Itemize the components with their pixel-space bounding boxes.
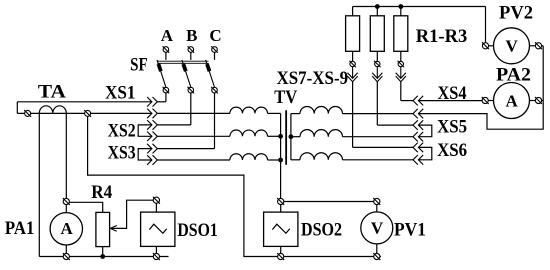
wire XS7 to XS6 row (352, 82, 354, 148)
wire SF pole B to connector row (190, 93, 192, 125)
wire top rail to resistors (353, 6, 486, 8)
wire XS8 to XS5 row (376, 82, 378, 125)
svg-text:XS1: XS1 (105, 83, 136, 104)
connector contact XS1 pin 1 (147, 97, 157, 107)
wire bottom rail left (39, 256, 168, 258)
svg-text:PA2: PA2 (496, 64, 531, 85)
connector contact XS3 pin 2 (147, 155, 157, 165)
jumper bracket on XS2 (138, 125, 152, 136)
terminal on TA line left (24, 110, 31, 117)
terminal phase C input (211, 46, 218, 53)
current transformer TA secondary winding (39, 106, 66, 114)
connector contact XS3 pin 1 (147, 144, 157, 154)
jumper bracket on XS3 (138, 149, 152, 160)
terminal SF pole A output (163, 87, 170, 94)
svg-text:XS7-XS-9: XS7-XS-9 (277, 68, 349, 89)
terminal SF pole C output (211, 87, 218, 94)
rheostat R4 wiper arrow (110, 200, 153, 228)
wire XS4 to PA2 (418, 100, 482, 102)
wire XS1 to TV primary winding 1 (157, 112, 230, 114)
svg-text:C: C (209, 26, 221, 45)
wire XS9 to XS4 row (400, 82, 402, 101)
svg-text:XS6: XS6 (437, 140, 467, 161)
terminal phase A input (163, 46, 170, 53)
svg-text:A: A (60, 219, 73, 238)
junction top rail R3 (398, 4, 403, 9)
resistor R3 (400, 7, 402, 16)
wire A terminal to breaker (165, 52, 167, 60)
svg-text:PA1: PA1 (5, 218, 35, 239)
ammeter PA2 (482, 97, 489, 104)
wire XS4 return under PA2 (418, 46, 543, 129)
wire TA primary line (17, 112, 152, 114)
svg-text:TA: TA (38, 82, 66, 103)
oscilloscope DSO2 (277, 198, 284, 205)
transformer TV primary winding 3 (230, 154, 268, 160)
transformer TV secondary winding 2 (300, 130, 342, 137)
breaker SF pole C blade (206, 60, 215, 87)
svg-text:DSO2: DSO2 (301, 219, 342, 240)
junction TV primary common w3 (278, 158, 283, 163)
connector contact XS5 pin 1 (413, 120, 423, 130)
connector contact XS6 pin 1 (413, 143, 423, 153)
wire XS2 to TV primary winding 2 (157, 135, 230, 137)
connector contact XS5 pin 2 (413, 132, 423, 142)
transformer TV primary winding 2 (230, 130, 268, 136)
svg-text:V: V (506, 37, 519, 56)
connector contact XS4 pin 2 (413, 109, 423, 119)
svg-text:A: A (506, 91, 519, 110)
transformer TV secondary winding 3 (300, 153, 342, 160)
connector XS7 contacts (352, 67, 354, 79)
svg-text:TV: TV (274, 87, 297, 108)
svg-text:PV2: PV2 (499, 3, 533, 24)
breaker SF pole B blade (182, 60, 191, 87)
svg-text:R4: R4 (91, 182, 112, 203)
svg-text:R1-R3: R1-R3 (416, 26, 468, 47)
connector contact XS2 pin 2 (147, 132, 157, 142)
connector contact XS1 pin 2 (147, 109, 157, 119)
resistor R1 (352, 7, 354, 16)
wire TV primary common (268, 112, 281, 114)
transformer TV secondary winding 1 (300, 107, 342, 114)
connector contact XS6 pin 2 (413, 155, 423, 165)
svg-text:PV1: PV1 (394, 219, 426, 240)
wire DSO2 top to PV1 top (284, 201, 374, 203)
wire TV secondary w3 to XS6 (343, 159, 414, 161)
voltmeter PV1 (373, 198, 380, 205)
terminal SF pole B output (188, 87, 195, 94)
jumper bracket on XS5 (418, 125, 431, 137)
terminal below R2 (374, 61, 380, 67)
breaker SF pole A blade (157, 60, 166, 87)
wire SF pole C to connector row (214, 93, 216, 149)
wire SF pole A to connector row (165, 93, 167, 102)
wire C terminal to breaker (214, 52, 216, 60)
terminal below R1 (349, 61, 355, 67)
resistor R2 (376, 7, 378, 16)
svg-text:XS2: XS2 (108, 121, 136, 142)
connector contact XS4 pin 1 (413, 96, 423, 106)
wire TA secondary lead left down to bottom rail (38, 113, 40, 256)
wire PA1 top to R4 top (70, 202, 103, 212)
svg-text:XS5: XS5 (437, 117, 467, 138)
connector contact XS2 pin 1 (147, 120, 157, 130)
junction R4 bottom (100, 254, 105, 259)
terminal phase B input (188, 46, 195, 53)
wire TV secondary w1 to XS4 (343, 113, 414, 115)
svg-text:A: A (161, 26, 174, 45)
wire TV secondary common (291, 113, 300, 115)
wire B terminal to breaker (190, 52, 192, 60)
wire phase A from TA to XS1 top contact (17, 101, 152, 103)
wire TA loop left end (16, 102, 18, 114)
junction TV secondary common w2 (289, 134, 294, 139)
oscilloscope DSO1 (153, 197, 160, 204)
svg-text:V: V (371, 218, 384, 237)
voltmeter PV2 (482, 42, 489, 49)
terminal tap on TA line (84, 110, 91, 117)
wire TA secondary lead right down to PA1 (65, 113, 67, 198)
svg-text:B: B (186, 26, 197, 45)
wire TV secondary w2 to XS5 (343, 136, 414, 138)
wire XS3 to TV primary winding 3 (157, 159, 230, 161)
ammeter PA1 (63, 198, 70, 205)
connector XS9 contacts (400, 67, 402, 79)
junction top rail R2 (375, 4, 380, 9)
jumper bracket on XS6 (418, 147, 431, 159)
svg-text:DSO1: DSO1 (177, 220, 218, 241)
connector XS8 contacts (376, 67, 378, 79)
transformer TV primary winding 1 (230, 107, 268, 113)
svg-text:XS3: XS3 (108, 143, 136, 164)
transformer TV core (285, 110, 287, 165)
junction TV primary common w2 (278, 134, 283, 139)
switch SF link bar (157, 60, 208, 62)
svg-text:SF: SF (130, 54, 148, 75)
wire phase tap down and across (88, 117, 381, 257)
rheostat R4 (96, 212, 110, 246)
terminal below R3 (398, 61, 404, 67)
